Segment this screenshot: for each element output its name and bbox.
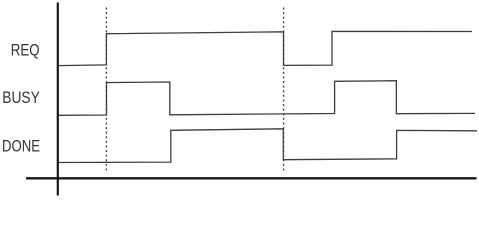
- svg-text:REQ: REQ: [11, 41, 40, 59]
- wire BUSY waveform: [58, 81, 475, 116]
- dotted marker line 1: [105, 8, 107, 173]
- wire DONE waveform: [58, 129, 477, 163]
- svg-text:DONE: DONE: [2, 138, 40, 156]
- wire REQ waveform: [58, 31, 472, 65]
- horizontal axis: [26, 177, 477, 179]
- svg-text:BUSY: BUSY: [2, 89, 40, 107]
- dotted marker line 2: [283, 8, 285, 174]
- vertical axis: [57, 3, 59, 196]
